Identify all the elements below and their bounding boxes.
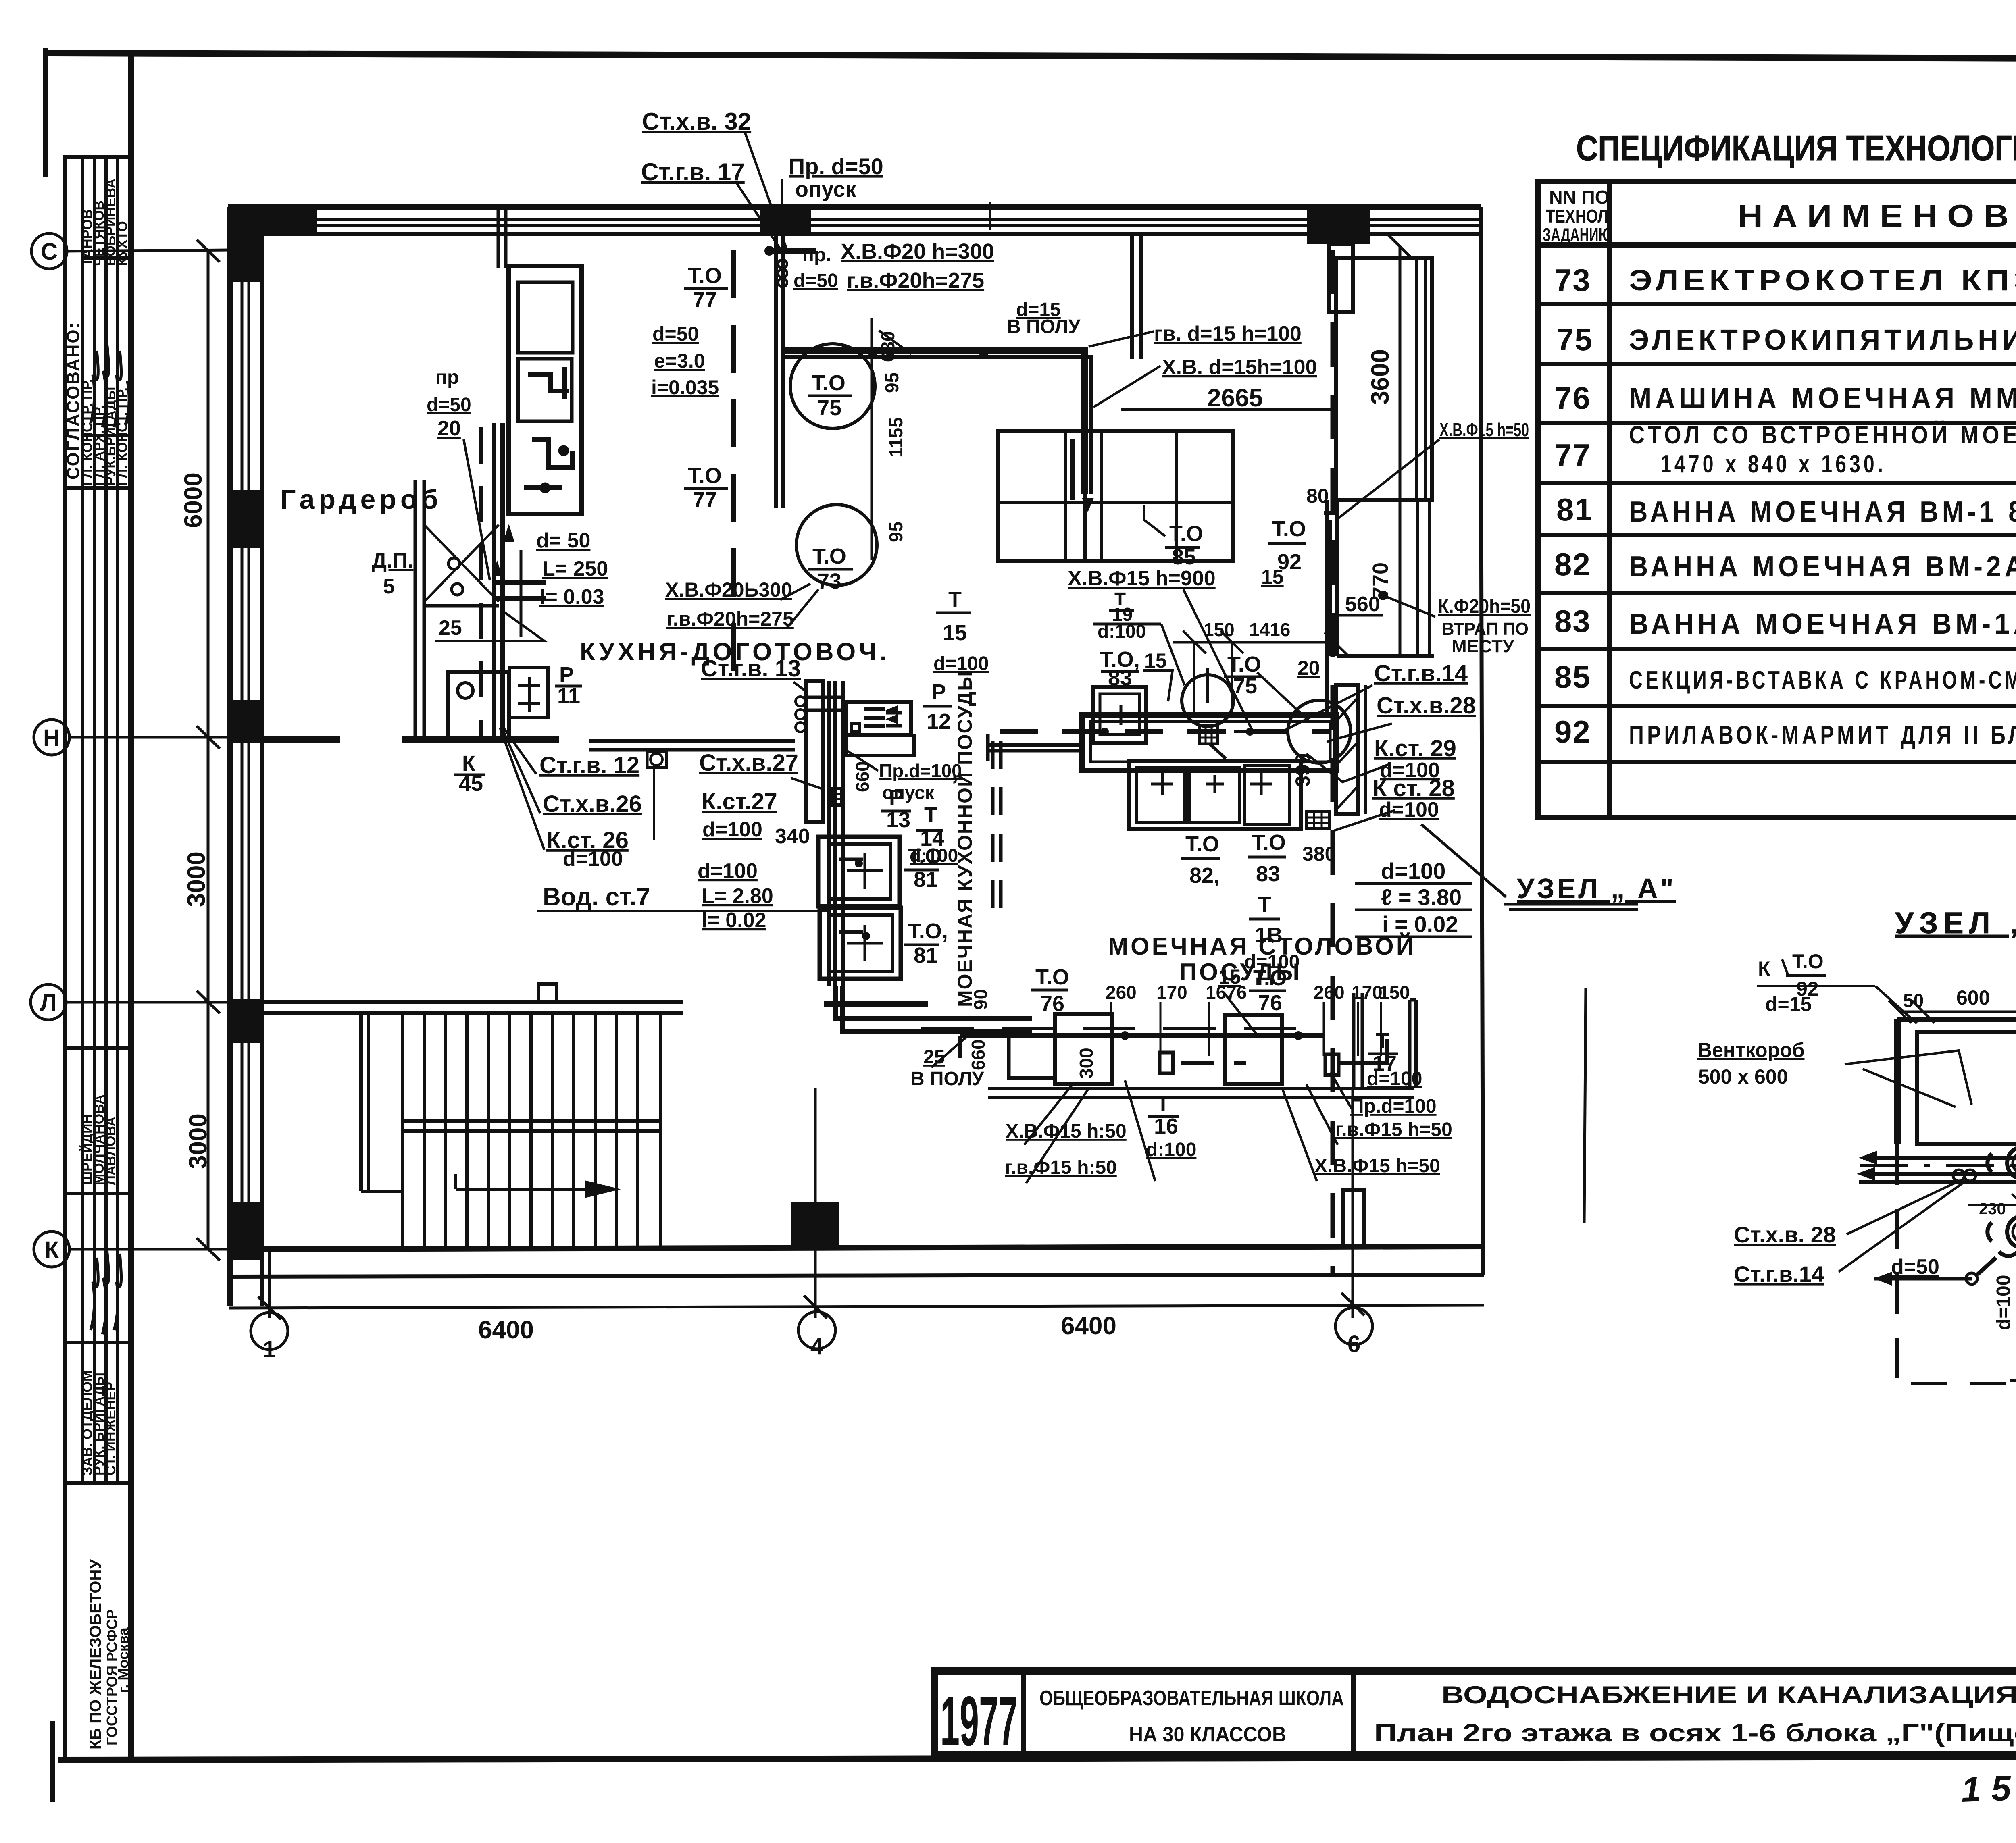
svg-text:Т.О: Т.О (812, 371, 846, 395)
bottom wall (228, 1246, 1484, 1249)
svg-text:ТЕХНОЛ.: ТЕХНОЛ. (1546, 206, 1612, 227)
machine ММУ-500 block (Т.О 85) (998, 431, 1233, 561)
svg-text:ВТРАП ПО: ВТРАП ПО (1442, 619, 1529, 639)
svg-text:1155: 1155 (885, 417, 906, 458)
svg-text:2665: 2665 (1207, 384, 1263, 412)
svg-text:5: 5 (383, 575, 395, 598)
svg-text:15: 15 (1144, 649, 1167, 672)
svg-text:Н: Н (43, 725, 60, 751)
svg-text:Ст.х.в.28: Ст.х.в.28 (1377, 693, 1476, 719)
stair treads (401, 1013, 404, 1246)
svg-text:УЗЕЛ „ А": УЗЕЛ „ А" (1517, 873, 1676, 904)
table Р/11 with sink (448, 672, 509, 738)
svg-text:гв. d=15 h=100: гв. d=15 h=100 (1154, 322, 1302, 345)
svg-text:Р: Р (931, 680, 946, 704)
svg-text:КБ ПО ЖЕЛЕЗОБЕТОНУ: КБ ПО ЖЕЛЕЗОБЕТОНУ (87, 1559, 104, 1749)
svg-text:260: 260 (1314, 982, 1345, 1003)
stairs (262, 1000, 683, 1004)
svg-text:82,: 82, (1189, 863, 1220, 888)
svg-text:d= 50: d= 50 (536, 529, 590, 552)
svg-text:230: 230 (1979, 1200, 2006, 1218)
svg-text:Ст.г.в.14: Ст.г.в.14 (1374, 660, 1468, 686)
svg-text:Ст.г.в. 17: Ст.г.в. 17 (641, 158, 745, 185)
svg-text:ЭЛЕКТРОКИПЯТИЛЬНИК КНЭ-100: ЭЛЕКТРОКИПЯТИЛЬНИК КНЭ-100 (1629, 324, 2016, 356)
svg-text:Т.О: Т.О (812, 544, 846, 568)
svg-text:560: 560 (1345, 593, 1380, 616)
svg-text:630: 630 (877, 331, 898, 362)
svg-text:Ст.х.в.27: Ст.х.в.27 (699, 750, 798, 776)
svg-text:95: 95 (885, 522, 906, 542)
svg-text:СПЕЦИФИКАЦИЯ ТЕХНОЛОГИЧЕСКОГО: СПЕЦИФИКАЦИЯ ТЕХНОЛОГИЧЕСКОГО ОБОРУДОВАН… (1576, 128, 2016, 168)
portal near top (1130, 234, 1134, 359)
svg-text:1: 1 (263, 1336, 276, 1362)
right leaders (931, 439, 1439, 1183)
svg-text:С: С (41, 239, 58, 265)
svg-text:500 x 600: 500 x 600 (1698, 1065, 1788, 1088)
svg-text:380: 380 (1302, 842, 1336, 865)
svg-text:Т.О: Т.О (1169, 522, 1203, 546)
svg-text:3600: 3600 (1366, 349, 1394, 405)
svg-text:95: 95 (881, 372, 902, 393)
svg-text:К.ст. 29: К.ст. 29 (1374, 735, 1456, 761)
svg-text:12: 12 (927, 709, 951, 734)
svg-text:Р: Р (889, 785, 904, 809)
svg-text:77: 77 (693, 488, 717, 512)
svg-text:1В: 1В (1255, 923, 1283, 947)
svg-text:Венткороб: Венткороб (1697, 1039, 1804, 1061)
axis К circle (34, 1231, 69, 1267)
svg-text:Х.В.Ф20 h=300: Х.В.Ф20 h=300 (841, 239, 994, 264)
svg-text:3000: 3000 (184, 1113, 212, 1169)
svg-text:l= 0.03: l= 0.03 (539, 585, 604, 609)
svg-text:260: 260 (1106, 982, 1137, 1003)
flange К.ст.29 (2007, 1147, 2016, 1179)
svg-text:d=100: d=100 (1367, 1068, 1422, 1090)
bench Д.П.5 with cross brace (414, 480, 417, 738)
svg-text:Ст.х.в. 32: Ст.х.в. 32 (642, 108, 751, 135)
svg-text:Р: Р (559, 663, 574, 687)
svg-text:3000: 3000 (183, 851, 210, 907)
svg-text:d=15: d=15 (1765, 993, 1812, 1015)
svg-text:К.ст.27: К.ст.27 (702, 788, 777, 815)
svg-text:Т.О: Т.О (688, 464, 722, 488)
svg-text:6000: 6000 (179, 472, 207, 528)
svg-text:Т.О: Т.О (688, 264, 722, 288)
svg-text:К.Ф20h=50: К.Ф20h=50 (1438, 596, 1531, 617)
equipment circle T.O 73 (КПЭ-160 kettle) (796, 505, 877, 585)
svg-text:Т.О: Т.О (1035, 965, 1069, 989)
svg-text:i=0.035: i=0.035 (651, 376, 719, 399)
svg-text:Л: Л (40, 990, 57, 1016)
svg-text:Пр.d=100: Пр.d=100 (879, 760, 962, 781)
svg-text:i = 0.02: i = 0.02 (1382, 911, 1458, 937)
svg-text:Пр.d=100: Пр.d=100 (1350, 1096, 1437, 1117)
partition right of кухня (806, 681, 823, 822)
axis Н circle (34, 720, 69, 755)
кухонная посуда dashed риser (991, 741, 995, 915)
svg-text:Т.О: Т.О (1252, 830, 1286, 855)
svg-text:г.в.Ф15 h:50: г.в.Ф15 h:50 (1005, 1157, 1117, 1178)
svg-text:ℓ = 3.80: ℓ = 3.80 (1381, 884, 1462, 910)
svg-text:Т: Т (1258, 892, 1271, 917)
fractions left (459, 264, 989, 866)
svg-text:К: К (1758, 957, 1770, 980)
d=50 branch (1874, 1277, 1972, 1281)
svg-text:85: 85 (1554, 659, 1591, 695)
svg-text:d=100: d=100 (702, 818, 762, 841)
svg-text:83: 83 (1554, 603, 1591, 639)
svg-text:Ст.х.в. 28: Ст.х.в. 28 (1734, 1222, 1836, 1247)
svg-text:Ст.х.в.26: Ст.х.в.26 (543, 791, 642, 817)
svg-text:ЛАВЛОВА: ЛАВЛОВА (103, 1117, 119, 1185)
svg-text:d=100: d=100 (563, 847, 623, 871)
svg-text:ЗАДАНИЮ: ЗАДАНИЮ (1543, 224, 1612, 245)
svg-text:1416: 1416 (1249, 619, 1290, 640)
svg-text:d=100: d=100 (698, 859, 758, 883)
column at axis 6 above К wall (1343, 1190, 1364, 1246)
left wall (227, 207, 233, 1306)
washing bath Т.О 81 (lower) (820, 908, 901, 979)
svg-text:82: 82 (1554, 547, 1591, 582)
svg-text:600: 600 (1956, 986, 1990, 1009)
vent shaft (1336, 258, 1432, 500)
svg-text:50: 50 (1903, 990, 1924, 1011)
svg-text:К: К (44, 1237, 59, 1263)
central column extras (790, 344, 1032, 1031)
svg-text:73: 73 (1554, 262, 1591, 298)
svg-text:К ст. 28: К ст. 28 (1372, 775, 1455, 801)
svg-text:300: 300 (1076, 1048, 1097, 1079)
svg-text:77: 77 (1554, 437, 1591, 473)
svg-text:ВАННА МОЕЧНАЯ ВМ-1А 630x630: ВАННА МОЕЧНАЯ ВМ-1А 630x630x860. (1629, 608, 2016, 640)
svg-text:6: 6 (1347, 1331, 1360, 1357)
walls of detail (1894, 1019, 1901, 1144)
svg-text:Гардероб: Гардероб (280, 484, 442, 515)
svg-text:75: 75 (1556, 322, 1593, 357)
svg-text:L= 250: L= 250 (542, 557, 608, 580)
interior walls H axis (262, 736, 340, 743)
svg-text:Т.О: Т.О (1792, 950, 1824, 973)
equipment circle at узел А location (1288, 700, 1351, 763)
axis 4 circle (798, 1312, 835, 1349)
230 75 dim (1968, 1204, 2016, 1206)
svg-text:ОБЩЕОБРАЗОВАТЕЛЬНАЯ ШКОЛА: ОБЩЕОБРАЗОВАТЕЛЬНАЯ ШКОЛА (1039, 1687, 1344, 1710)
svg-text:г.в.Ф20h=275: г.в.Ф20h=275 (666, 607, 794, 630)
svg-text:Ст.г.в. 12: Ст.г.в. 12 (539, 752, 639, 778)
svg-text:План 2го этажа в осях 1-6 блок: План 2го этажа в осях 1-6 блока „Г"(Пище… (1374, 1719, 2016, 1747)
svg-text:Пр. d=50: Пр. d=50 (789, 154, 883, 179)
svg-text:92: 92 (1277, 550, 1302, 574)
flange К.ст.28 (2007, 1216, 2016, 1248)
dimension chains (1900, 1011, 2016, 1013)
узел А pipes Ст.х.в.28 / Ст.г.в.14 (1863, 1156, 2016, 1160)
pier right-middle (1336, 685, 1358, 814)
svg-text:75: 75 (817, 396, 841, 420)
svg-text:Т.О: Т.О (1272, 517, 1306, 541)
svg-text:77: 77 (693, 288, 717, 312)
svg-text:e=3.0: e=3.0 (654, 349, 705, 372)
svg-text:В ПОЛУ: В ПОЛУ (1007, 316, 1081, 337)
svg-text:170: 170 (1352, 982, 1383, 1003)
svg-text:83: 83 (1256, 862, 1280, 886)
svg-text:СЕКЦИЯ-ВСТАВКА С КРАНОМ-СМЕСИТ: СЕКЦИЯ-ВСТАВКА С КРАНОМ-СМЕСИТЕЛЕМ ВМСМ. (1629, 666, 2016, 694)
svg-text:d=50: d=50 (1891, 1255, 1939, 1279)
svg-text:В ПОЛУ: В ПОЛУ (910, 1068, 984, 1090)
equipment circle Т.О 75 (right) (1182, 675, 1233, 726)
dashed partition line (731, 250, 736, 677)
right wall (1481, 207, 1483, 1275)
svg-text:92: 92 (1554, 714, 1591, 749)
svg-text:80: 80 (1306, 485, 1329, 507)
svg-text:NN ПО: NN ПО (1549, 187, 1610, 208)
svg-text:83: 83 (1108, 666, 1132, 690)
svg-text:25: 25 (439, 616, 462, 640)
svg-text:Х.В.Ф15 h=50: Х.В.Ф15 h=50 (1439, 419, 1529, 440)
svg-text:81: 81 (1556, 492, 1593, 527)
svg-text:Н А И М Е Н О В А Н И Е: Н А И М Е Н О В А Н И Е (1738, 198, 2016, 233)
svg-text:МЕСТУ: МЕСТУ (1452, 637, 1514, 656)
svg-text:d:100: d:100 (1146, 1139, 1196, 1161)
pipe run d=15 в полу with drop (781, 351, 1085, 494)
svg-text:81: 81 (914, 943, 938, 967)
svg-text:660: 660 (852, 761, 873, 792)
washing bath Т.О 83 at long table (1093, 687, 1146, 743)
svg-text:пр.: пр. (802, 244, 831, 266)
svg-text:d=50: d=50 (427, 394, 471, 416)
equipment circle T.O 75 (КНЭ-100 boiler) (790, 344, 875, 429)
svg-text:150: 150 (1379, 982, 1410, 1003)
svg-text:d=50: d=50 (652, 322, 699, 345)
svg-text:г.в.Ф15 h=50: г.в.Ф15 h=50 (1335, 1119, 1452, 1140)
svg-text:ЭЛЕКТРОКОТЕЛ КПЭ-160: ЭЛЕКТРОКОТЕЛ КПЭ-160 (1629, 264, 2016, 297)
dashed pipe in long table (1000, 729, 1331, 734)
svg-text:МОЕЧНАЯ КУХОННОЙ ПОСУДЫ: МОЕЧНАЯ КУХОННОЙ ПОСУДЫ (953, 670, 976, 1007)
svg-text:КУХТО: КУХТО (115, 221, 130, 266)
pipe from shaft down (T.O 92) (1326, 520, 1332, 656)
svg-text:150: 150 (1204, 619, 1235, 640)
svg-text:4: 4 (810, 1333, 823, 1360)
svg-text:170: 170 (1156, 982, 1187, 1003)
svg-text:Т: Т (924, 803, 937, 827)
washing bath Т.О 81 (upper) (818, 837, 900, 906)
cabinet Т.О 77 with piping (509, 266, 581, 514)
sink cluster Т.О 82 / Т.О 83 (1129, 761, 1301, 829)
svg-text:Х.В.Ф15 h=50: Х.В.Ф15 h=50 (1314, 1155, 1440, 1177)
svg-text:76: 76 (1258, 991, 1282, 1015)
svg-text:ВАННА МОЕЧНАЯ ВМ-2А 1260x63: ВАННА МОЕЧНАЯ ВМ-2А 1260x630x860. (1629, 551, 2016, 583)
svg-text:ВОДОСНАБЖЕНИЕ И КАНАЛИЗАЦИЯ: ВОДОСНАБЖЕНИЕ И КАНАЛИЗАЦИЯ (1441, 1681, 2016, 1708)
long serving table (прилавок Т.О 92 / 75 zone) (1082, 715, 1336, 770)
svg-text:d=100: d=100 (1993, 1275, 2014, 1330)
svg-text:76: 76 (1040, 992, 1064, 1016)
top wall (228, 204, 1481, 210)
svg-text:6400: 6400 (478, 1316, 534, 1344)
svg-text:Х.В.Ф20Ь300: Х.В.Ф20Ь300 (665, 578, 792, 601)
floor pipe run (25 в полу) (960, 1033, 1323, 1038)
svg-text:Т.О: Т.О (1185, 832, 1219, 856)
table Р/12 with pipe connections (846, 702, 911, 735)
svg-text:Ст.г.в.14: Ст.г.в.14 (1734, 1261, 1824, 1287)
axis 1 circle (251, 1313, 288, 1350)
svg-text:Т.О: Т.О (1253, 966, 1287, 990)
svg-text:6400: 6400 (1061, 1312, 1116, 1340)
svg-text:Вод. ст.7: Вод. ст.7 (543, 883, 650, 911)
svg-text:1470 x 840 x 1630.: 1470 x 840 x 1630. (1660, 450, 1886, 478)
svg-text:d=100: d=100 (1381, 858, 1445, 884)
svg-text:L= 2.80: L= 2.80 (702, 884, 773, 908)
riser pipes bundle (Ст.х.в.27 / Ст.г.в.13 / К.ст.27) (827, 681, 831, 986)
svg-text:Т: Т (1376, 1029, 1389, 1053)
svg-text:Т: Т (948, 587, 962, 612)
svg-text:ВАННА МОЕЧНАЯ ВМ-1 840x840x: ВАННА МОЕЧНАЯ ВМ-1 840x840x860. (1629, 496, 2016, 528)
svg-text:15: 15 (943, 621, 967, 645)
svg-text:20: 20 (1297, 657, 1320, 679)
signatures squiggles (91, 339, 133, 1334)
svg-text:Х.В. d=15h=100: Х.В. d=15h=100 (1162, 356, 1317, 379)
svg-text:пр: пр (435, 367, 459, 388)
svg-text:d=50: d=50 (793, 270, 838, 291)
vertical bundle near cabinet (479, 427, 483, 737)
svg-text:1977: 1977 (940, 1682, 1018, 1761)
svg-text:г. Москва: г. Москва (115, 1627, 131, 1693)
axis 6 circle (1335, 1308, 1372, 1345)
bottom row machines Т.О 76 (1009, 1035, 1055, 1078)
svg-text:76: 76 (1554, 380, 1591, 416)
axis С circle (31, 233, 67, 269)
svg-text:20: 20 (437, 417, 461, 440)
svg-text:УЗЕЛ „А": УЗЕЛ „А" (1895, 906, 2016, 940)
riser to П corner bottom-right (1408, 1000, 1412, 1088)
svg-text:СТОЛ СО ВСТРОЕННОЙ МОЕЧНОЙ ВАН: СТОЛ СО ВСТРОЕННОЙ МОЕЧНОЙ ВАННОЙ СМВСМ (1629, 421, 2016, 449)
svg-text:ПРИЛАВОК-МАРМИТ ДЛЯ II БЛЮД: ПРИЛАВОК-МАРМИТ ДЛЯ II БЛЮД ЛПС-3. (1629, 720, 2016, 749)
svg-text:МАШИНА МОЕЧНАЯ ММУ-500: МАШИНА МОЕЧНАЯ ММУ-500 (1629, 382, 2016, 414)
svg-text:d=100: d=100 (1379, 798, 1439, 822)
axis Л circle (31, 984, 66, 1020)
trap room below shaft (1335, 500, 1339, 656)
svg-text:НА 30 КЛАССОВ: НА 30 КЛАССОВ (1129, 1723, 1286, 1746)
svg-text:СТ. ИНЖЕНЕР: СТ. ИНЖЕНЕР (103, 1382, 119, 1475)
svg-text:Т: Т (1156, 1092, 1170, 1116)
svg-text:Х.В.Ф15 h=900: Х.В.Ф15 h=900 (1068, 567, 1216, 590)
svg-text:Т.О,: Т.О, (908, 919, 948, 943)
svg-text:340: 340 (775, 825, 810, 848)
svg-text:Д.П.: Д.П. (372, 549, 413, 572)
dashed wall line right (1331, 250, 1335, 1274)
svg-text:660: 660 (968, 1039, 989, 1070)
svg-text:опуск: опуск (795, 177, 856, 202)
svg-text:Т.О: Т.О (908, 844, 942, 868)
svg-text:г.в.Ф20h=275: г.в.Ф20h=275 (847, 268, 984, 293)
leader lines left (435, 133, 1160, 911)
svg-text:Ст.г.в. 13: Ст.г.в. 13 (701, 655, 801, 682)
svg-text:1676: 1676 (1206, 982, 1247, 1003)
svg-text:90: 90 (970, 989, 991, 1010)
